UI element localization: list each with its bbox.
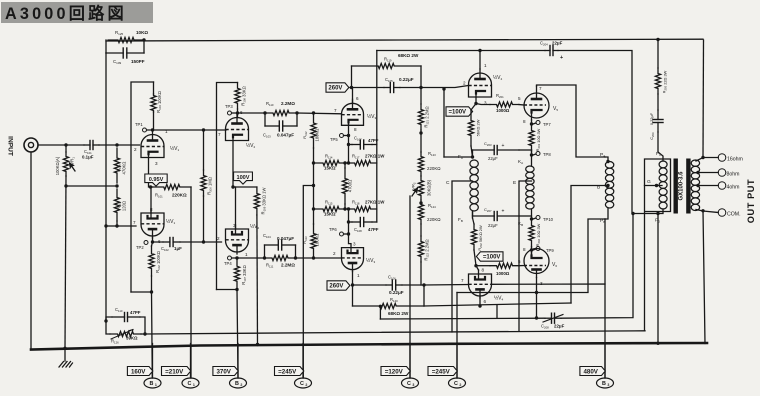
node paraphase [202, 240, 205, 243]
wire V6 plate [536, 278, 538, 293]
node V4a plate tap [478, 49, 481, 52]
label R206 [535, 223, 541, 246]
title block A3000 kairozu [1, 2, 153, 23]
tube V1b half 12AX7 [141, 209, 164, 238]
svg-text:100KΩ(A): 100KΩ(A) [55, 156, 60, 175]
node C108 left [347, 220, 350, 223]
svg-text:C: C [454, 381, 458, 387]
node R112 bottom [312, 161, 315, 164]
node TP5 [347, 134, 350, 137]
wire ladder mid [313, 148, 315, 209]
wire C2b drop [456, 293, 458, 379]
node divider bottom [115, 224, 118, 227]
svg-text:B: B [150, 381, 154, 387]
resistor R113 180K [311, 209, 316, 258]
wire VR1 bottom to ground [65, 176, 66, 348]
wire G tap [645, 179, 663, 186]
capacitor C105 0.22uF [352, 83, 422, 93]
wire V3a cathode col [348, 122, 350, 163]
label C101 0.1uF [82, 149, 94, 160]
resistor R207 56K 2W top [468, 104, 476, 158]
node R116 bot [343, 207, 346, 210]
label R101 220K [155, 193, 187, 199]
svg-text:260V: 260V [329, 284, 343, 290]
node R116 top [343, 161, 346, 164]
svg-text:370V: 370V [216, 368, 231, 375]
terminal C3 -120V [381, 344, 419, 389]
capacitor C102 1uF [163, 238, 180, 247]
label R109 33K1W [261, 188, 267, 215]
wire to V2b grid [204, 241, 222, 243]
tap E [513, 180, 532, 331]
pin 1 V1a [165, 129, 168, 134]
svg-text:B: B [597, 185, 600, 191]
pin 8 V1b [150, 207, 153, 212]
svg-text:0.1μF: 0.1μF [82, 155, 94, 160]
pin 2 V1a [134, 147, 137, 152]
resistor R107 33K [234, 258, 239, 290]
svg-text:260V: 260V [328, 86, 342, 92]
node feedback-grid junction [104, 224, 107, 227]
svg-text:4700Ω: 4700Ω [348, 180, 353, 192]
node V4b cathode [478, 304, 481, 307]
svg-text:0.22μF: 0.22μF [389, 290, 404, 295]
wire C106 to V4b grid [424, 284, 469, 287]
svg-text:=210V: =210V [165, 368, 184, 375]
wire feedback top [106, 39, 703, 41]
resistor R203 10ohm [529, 124, 534, 152]
wire C204 to corner [558, 51, 632, 214]
wire V6 grid row [476, 263, 524, 268]
wire COM tap [696, 210, 718, 213]
tube V1a half 12AX7 [141, 131, 164, 158]
svg-text:2: 2 [333, 251, 336, 256]
svg-text:0.22μF: 0.22μF [649, 112, 654, 125]
node V3a grid tap [312, 111, 315, 114]
node x444 top [442, 87, 445, 90]
resistor R114 15K [314, 160, 349, 165]
svg-text:22μF: 22μF [488, 156, 498, 161]
wire B2 box [217, 83, 238, 290]
svg-text:TP7: TP7 [543, 122, 551, 127]
node bus gnd [63, 347, 66, 350]
tube V4a half [469, 69, 492, 97]
pin 8 V4b [482, 268, 485, 273]
potentiometer VR2 30K [412, 176, 424, 200]
label R106 1M [207, 177, 213, 195]
tube V6 output [524, 247, 549, 278]
wire C208 row [380, 317, 545, 320]
svg-text:120Ω: 120Ω [122, 201, 127, 211]
svg-text:2: 2 [217, 236, 220, 241]
label half-V2 lower [233, 223, 260, 230]
label 0.95V box [145, 174, 167, 186]
node R117 left [347, 161, 350, 164]
label R208 [496, 255, 510, 276]
resistor R123 220K [418, 152, 423, 176]
label C109 150PF [113, 59, 145, 65]
node B1 join [150, 290, 153, 293]
wire box join B1 [131, 291, 152, 293]
node V6 plate down [535, 293, 538, 320]
svg-text:180KΩ: 180KΩ [315, 234, 320, 247]
svg-text:=245V: =245V [278, 368, 297, 375]
wire V4a plate [479, 51, 481, 70]
capacitor C106 0.22uF [353, 280, 425, 290]
pin 7 V3a [334, 108, 337, 113]
terminal B1 160V [127, 344, 161, 389]
label half-V3 upper [367, 113, 377, 120]
svg-text:G: G [647, 179, 651, 185]
svg-text:3: 3 [155, 161, 158, 166]
pin 2 V2b [217, 236, 220, 241]
svg-text:15KΩ: 15KΩ [324, 166, 336, 171]
node bus right [656, 342, 659, 345]
pin 6 V3a [356, 96, 359, 101]
wire V2a plate to coupling [238, 112, 266, 114]
resistor R206 10ohm [529, 219, 534, 247]
node divider mid [115, 184, 118, 187]
pin 5 V6 [518, 259, 521, 264]
resistor R116 4700 [342, 163, 347, 209]
label C110 [115, 307, 141, 315]
node B tap [597, 184, 610, 191]
svg-text:8: 8 [354, 127, 357, 132]
node R115 top [312, 207, 315, 210]
svg-text:TP1: TP1 [135, 122, 143, 127]
label FC [656, 151, 662, 157]
wire right rail of ladder [376, 145, 378, 223]
svg-text:1000Ω: 1000Ω [496, 271, 510, 276]
node FA [471, 155, 474, 158]
wire V2a grid row [204, 129, 227, 131]
resistor R106 1M [201, 130, 206, 242]
svg-text:=100V: =100V [483, 255, 501, 261]
pin 7 V5 [539, 86, 542, 91]
svg-text:2: 2 [240, 383, 242, 387]
label -100V bottom [476, 252, 503, 261]
pin 2 V3b [333, 251, 336, 256]
winding C-F [470, 160, 478, 211]
svg-text:0.95V: 0.95V [149, 177, 164, 183]
svg-text:1: 1 [155, 383, 157, 387]
label V5 [553, 106, 558, 112]
wire R102 to B1 rail [151, 276, 153, 292]
resistor R205 22ohm 3W [655, 40, 660, 111]
wire R201 to V5 grid [519, 104, 524, 107]
svg-text:7: 7 [334, 108, 337, 113]
tap C [446, 180, 473, 332]
wire L1 480V [492, 284, 606, 378]
svg-text:2: 2 [134, 147, 137, 152]
label C105 [385, 77, 414, 83]
svg-text:7: 7 [461, 278, 464, 283]
wire V6 cathode [531, 250, 533, 256]
tube V3a half [342, 99, 364, 125]
capacitor C207 22uF [473, 207, 532, 228]
label C107 47PF [354, 136, 379, 144]
label C103 0.047uF [263, 133, 294, 139]
node wiper [64, 184, 67, 187]
label C206 [649, 112, 655, 139]
svg-text:R106 1MΩ: R106 1MΩ [207, 177, 213, 195]
label R207 [476, 119, 481, 136]
label R115 15K [324, 200, 336, 217]
label 120ohm [117, 201, 127, 211]
capacitor C101 [84, 141, 99, 150]
transformer core GX100-3.6 [674, 159, 691, 214]
label FB [458, 217, 463, 223]
pin 1 V4a [484, 63, 487, 68]
label INPUT [6, 136, 13, 156]
svg-text:100V: 100V [236, 175, 249, 181]
wire V1a plate row [147, 129, 204, 131]
svg-text:160V: 160V [131, 368, 146, 375]
resistor R201 1000 [476, 102, 519, 107]
svg-text:1: 1 [193, 383, 195, 387]
node jog 380 [379, 305, 382, 308]
svg-text:8: 8 [523, 247, 526, 252]
label C108 47PF [354, 227, 379, 233]
svg-text:15KΩ: 15KΩ [324, 212, 336, 217]
label FA [458, 154, 463, 160]
pin 7 V2a [218, 132, 221, 137]
resistor R104 120ohm [114, 189, 119, 221]
wire R101 to C1 rail [190, 187, 192, 378]
label R110 2.2M [266, 101, 295, 107]
test point TP6 [329, 227, 349, 236]
wire FC lead [658, 152, 663, 161]
terminal 8ohm [718, 169, 739, 178]
node TP7 [530, 121, 552, 128]
resistor R110 2.2M [265, 110, 297, 115]
node G tap [655, 184, 658, 187]
label R111 2.2M [266, 263, 295, 269]
capacitor C206 0.22uF [653, 110, 663, 152]
wire V6 plate row right [457, 219, 605, 293]
terminal COM [718, 209, 740, 218]
label 260V bottom box [327, 281, 350, 290]
capacitor C204 22uF [540, 41, 563, 62]
svg-text:R107 33KΩ: R107 33KΩ [241, 265, 247, 284]
wire feedback row [145, 331, 645, 334]
wire C102 to paraphase node [180, 241, 204, 243]
capacitor C203 22uF [473, 141, 532, 161]
node V2a plate [236, 111, 239, 114]
wire VR2 wiper to C3 [409, 196, 411, 378]
resistor R125 [108, 37, 144, 42]
svg-text:INPUT: INPUT [6, 136, 13, 156]
label R116 4700 [348, 180, 353, 192]
node R125 right [142, 38, 145, 41]
wire input signal [38, 144, 84, 146]
node 470K input [115, 143, 118, 146]
wire FB lead [472, 211, 474, 218]
wire to V4a grid [421, 86, 469, 88]
svg-text:B: B [602, 381, 606, 387]
resistor R101 220K [153, 184, 192, 189]
wire V3b plate lead [352, 270, 354, 285]
node V6 plate row [535, 291, 538, 294]
node V2b out [235, 256, 238, 259]
test point TP2 [136, 241, 148, 251]
pin 3 V6 [540, 281, 543, 286]
label half-V4 upper [493, 74, 503, 81]
label R108 33K [241, 86, 247, 105]
node V3b plate row [351, 283, 354, 286]
svg-text:C: C [407, 381, 411, 387]
wire V2a plate lead [237, 109, 239, 118]
wire KA lead [531, 155, 533, 166]
wire V4b cathode up [476, 266, 479, 270]
resistor R111 2.2M [265, 255, 296, 260]
label R201 [496, 93, 510, 113]
svg-text:+: + [560, 55, 563, 61]
svg-text:OUT PUT: OUT PUT [746, 179, 756, 224]
tube V2a half [226, 114, 249, 141]
label VR2 [411, 179, 432, 196]
resistor R118 27K [349, 206, 377, 211]
winding KA-KB [526, 166, 534, 209]
svg-text:TP8: TP8 [543, 152, 551, 157]
wire V3b cathode col [349, 209, 351, 244]
label R119 [384, 53, 419, 63]
wire C204 row [377, 50, 545, 52]
wire bias mid1 [420, 130, 422, 152]
wire R107 to box [217, 289, 238, 291]
svg-text:TP4: TP4 [224, 261, 232, 266]
input jack J1 [24, 138, 38, 152]
pin 8 V5 [523, 119, 526, 124]
capacitor C104 [265, 240, 296, 258]
wire B1 down [151, 292, 154, 378]
svg-text:E: E [513, 180, 516, 186]
potentiometer VR1 [63, 152, 75, 176]
wire PB lead [605, 208, 608, 219]
svg-text:1: 1 [245, 252, 248, 257]
svg-text:B: B [235, 381, 239, 387]
label R120 [388, 297, 409, 316]
label 260V top box [326, 83, 352, 92]
svg-text:8: 8 [482, 268, 485, 273]
svg-text:8ohm: 8ohm [727, 172, 740, 178]
pin 6 V1b [158, 239, 161, 244]
wire F box [645, 159, 671, 331]
tube V4b half [469, 270, 492, 298]
label R117 27K [352, 154, 385, 160]
wire FD lead [633, 209, 663, 214]
node cathode junction [149, 185, 152, 188]
label half-V1 lower [166, 218, 176, 225]
node TP8 [530, 152, 552, 158]
svg-text:=245V: =245V [432, 368, 451, 375]
node V4a cathode [474, 102, 477, 105]
pin 5 V5 [518, 96, 521, 101]
wire divider to V1b grid [106, 221, 136, 226]
wire 4ohm tap [696, 184, 718, 187]
svg-text:3: 3 [233, 223, 236, 228]
terminal 4ohm [718, 182, 739, 191]
label R113 180K [303, 234, 320, 247]
node 100V point [231, 185, 234, 188]
test point TP3 [225, 104, 233, 115]
terminal C1 -210V [162, 344, 200, 389]
resistor R120 68K 2W [353, 285, 425, 309]
svg-text:3: 3 [353, 242, 356, 247]
svg-text:1μF: 1μF [174, 246, 182, 251]
svg-text:0.22μF: 0.22μF [399, 77, 414, 82]
node PA top [606, 160, 609, 163]
label half-V2 upper [240, 110, 256, 149]
wire cathode to V2b plate [235, 187, 237, 229]
label V6 [552, 262, 557, 268]
wire C101 to V1a grid [99, 144, 140, 146]
wire coupling to V3b grid [296, 257, 342, 259]
terminal B3 480V [580, 344, 614, 389]
resistor R115 15K [314, 206, 349, 211]
node C105 out [419, 86, 422, 89]
terminal C2b -245V [428, 344, 466, 389]
node COM [701, 209, 704, 212]
winding FC-FD [659, 161, 667, 209]
terminal B2 370V [213, 344, 247, 389]
label half-V4 lower [494, 295, 504, 302]
node ladder mid tap [312, 184, 315, 187]
resistor R108 33K [235, 83, 240, 110]
wire wiper row [66, 185, 117, 187]
node C106 out [422, 283, 425, 286]
label R107 33K [241, 265, 247, 284]
svg-text:480V: 480V [583, 368, 598, 375]
pin 3 V3b [353, 242, 356, 247]
capacitor C208 22uF [541, 313, 565, 329]
svg-text:27KΩ 1W: 27KΩ 1W [365, 154, 385, 159]
resistor R126 39K [106, 321, 145, 339]
wire KB lead [531, 209, 533, 219]
svg-text:+: + [502, 209, 505, 215]
wire B2 down [237, 290, 238, 379]
node V1a plate [151, 128, 154, 131]
svg-text:6: 6 [356, 96, 359, 101]
tube V3b half [342, 244, 364, 272]
svg-text:TP2: TP2 [136, 245, 144, 250]
svg-text:R108 33KΩ: R108 33KΩ [241, 86, 247, 105]
wire TP3 stub [232, 112, 238, 114]
svg-text:47PF: 47PF [130, 310, 141, 315]
tube V5 output [524, 86, 549, 120]
svg-text:220KΩ: 220KΩ [427, 166, 441, 171]
wire jog 497 [496, 305, 498, 318]
node tail ground [256, 343, 259, 346]
svg-text:=120V: =120V [385, 368, 404, 375]
svg-text:3: 3 [412, 383, 414, 387]
label R126 [111, 336, 138, 345]
wire COM down to bus [703, 211, 705, 344]
svg-text:30KΩ(B): 30KΩ(B) [427, 179, 432, 196]
test point TP5 [330, 134, 349, 143]
pin 7 V4b [461, 278, 464, 283]
svg-text:22μF: 22μF [488, 223, 498, 228]
svg-text:180KΩ: 180KΩ [315, 129, 320, 142]
pin 1 V2b [245, 252, 248, 257]
node TP6 [347, 232, 350, 235]
svg-text:150PF: 150PF [131, 59, 145, 64]
capacitor C107 47PF [349, 140, 377, 149]
label half-V1 upper [170, 145, 180, 152]
svg-text:3: 3 [607, 383, 609, 387]
resistor R117 27K [349, 160, 377, 165]
wire rail up to C204 row [376, 51, 378, 145]
